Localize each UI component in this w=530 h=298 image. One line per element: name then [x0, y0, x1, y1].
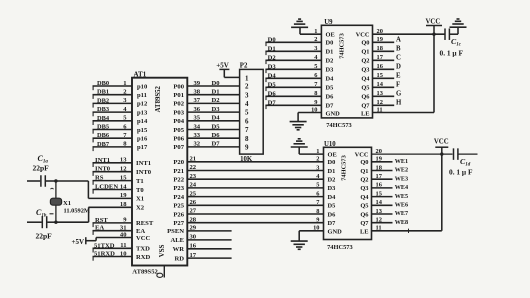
- svg-text:D5: D5: [268, 81, 277, 88]
- svg-text:H: H: [396, 100, 402, 107]
- wire U10 Q5 net WE6: [372, 202, 409, 209]
- wire DB6 to pin 7: [93, 132, 133, 142]
- svg-text:17: 17: [190, 252, 197, 259]
- svg-text:VCC: VCC: [434, 139, 449, 146]
- wire U10 Q0 net WE1: [372, 158, 409, 165]
- wire DB3 to pin 4: [93, 106, 133, 116]
- svg-text:4: 4: [245, 100, 249, 108]
- svg-text:D5: D5: [328, 203, 336, 210]
- svg-text:INT0: INT0: [95, 166, 111, 173]
- svg-text:Q2: Q2: [360, 177, 368, 184]
- svg-text:WE3: WE3: [395, 175, 408, 182]
- svg-text:REST: REST: [136, 220, 154, 227]
- wire crystal vertical: [55, 181, 57, 222]
- power +5V supply to VCC pin 40: [71, 237, 96, 246]
- label C1 value: [33, 154, 50, 173]
- svg-text:RST: RST: [95, 217, 108, 224]
- wire P04 net D4 pin 35: [187, 115, 239, 122]
- pin labels inside U9: [326, 32, 371, 118]
- svg-text:WE6: WE6: [395, 202, 408, 209]
- svg-text:9: 9: [316, 217, 319, 224]
- wire P01 net D1 pin 38: [187, 89, 239, 96]
- svg-text:21: 21: [190, 156, 197, 163]
- svg-text:D: D: [396, 64, 401, 71]
- svg-text:D2: D2: [268, 54, 277, 61]
- svg-text:P25: P25: [173, 203, 184, 210]
- power VCC above U10 rail: [435, 147, 448, 154]
- svg-text:D6: D6: [212, 132, 221, 139]
- svg-text:F: F: [396, 82, 400, 89]
- wire U10 Q2 net WE3: [372, 175, 409, 182]
- svg-text:19: 19: [120, 192, 127, 199]
- svg-text:D2: D2: [328, 177, 336, 184]
- svg-text:p17: p17: [137, 144, 148, 151]
- svg-text:P04: P04: [173, 118, 184, 125]
- svg-text:33: 33: [194, 132, 201, 139]
- svg-text:DB7: DB7: [97, 141, 110, 148]
- svg-text:VSS: VSS: [158, 244, 166, 257]
- wire U10 Q1 net WE2: [372, 167, 409, 174]
- svg-text:P01: P01: [173, 92, 184, 99]
- svg-text:D7: D7: [212, 141, 221, 148]
- svg-text:+5V: +5V: [216, 62, 229, 70]
- ground at U10 GND pin 10: [299, 231, 323, 241]
- svg-text:11: 11: [120, 242, 126, 249]
- svg-text:OE: OE: [326, 32, 335, 39]
- wire 51TXD: [93, 242, 133, 252]
- wire 51RXD: [93, 250, 133, 260]
- svg-text:VCC: VCC: [426, 19, 441, 26]
- node bottom stub of VSS pin: [163, 266, 165, 278]
- svg-text:WR: WR: [173, 246, 185, 253]
- svg-text:RS: RS: [95, 175, 104, 182]
- svg-text:AT89S52: AT89S52: [155, 85, 162, 112]
- svg-text:23: 23: [190, 173, 197, 180]
- wire U9 Q2 net C: [373, 55, 402, 62]
- label C3 value 0.1uF: [440, 37, 464, 57]
- wire D1 to U9 pin 3: [265, 45, 321, 55]
- svg-text:16: 16: [190, 243, 197, 250]
- svg-text:P03: P03: [173, 109, 184, 116]
- wire U9 Q5 net F: [373, 82, 401, 89]
- svg-text:Q1: Q1: [361, 49, 369, 56]
- svg-text:Q7: Q7: [360, 220, 369, 227]
- svg-text:74HC573: 74HC573: [339, 33, 346, 59]
- svg-text:DB0: DB0: [97, 80, 109, 87]
- svg-text:D5: D5: [326, 85, 334, 92]
- svg-text:D1: D1: [268, 45, 276, 52]
- svg-text:7: 7: [245, 126, 249, 134]
- svg-text:p10: p10: [137, 83, 148, 90]
- svg-text:INT0: INT0: [136, 169, 152, 176]
- svg-text:D1: D1: [212, 89, 220, 96]
- svg-text:P22: P22: [173, 177, 184, 184]
- svg-text:22: 22: [190, 164, 197, 171]
- wire U9 Q0 net A: [373, 37, 402, 44]
- svg-text:DB3: DB3: [97, 106, 109, 113]
- svg-text:C1c: C1c: [451, 37, 462, 48]
- svg-text:D7: D7: [328, 220, 337, 227]
- wire crystal bottom to X2 pin: [56, 207, 89, 222]
- svg-text:P26: P26: [173, 211, 184, 218]
- svg-text:29: 29: [190, 225, 197, 232]
- wire ALE pin 30: [187, 234, 231, 241]
- svg-text:INT1: INT1: [95, 157, 110, 164]
- capacitor C3 0.1uF at U9 VCC: [445, 28, 449, 40]
- svg-text:EA: EA: [95, 225, 104, 232]
- wire P05 net D5 pin 34: [187, 123, 239, 130]
- wire D2 to U9 pin 4: [265, 54, 321, 64]
- svg-text:A: A: [396, 37, 401, 44]
- svg-text:9: 9: [245, 144, 249, 152]
- svg-text:Q4: Q4: [360, 194, 369, 201]
- svg-text:36: 36: [194, 106, 201, 113]
- svg-text:D0: D0: [326, 40, 334, 47]
- svg-text:RD: RD: [174, 255, 184, 262]
- wire U10 VCC pin 20 rail: [372, 153, 453, 155]
- svg-text:14: 14: [120, 183, 127, 190]
- svg-text:DB5: DB5: [97, 124, 109, 131]
- svg-text:AT1: AT1: [134, 71, 147, 79]
- svg-text:8: 8: [245, 135, 249, 143]
- svg-text:0. 1 μ F: 0. 1 μ F: [440, 48, 464, 57]
- svg-text:11.0592M: 11.0592M: [64, 207, 90, 214]
- wire LCDEN pin 14: [93, 183, 133, 193]
- pin numbers U9 right: [377, 28, 384, 113]
- svg-text:LE: LE: [361, 110, 370, 117]
- svg-text:32: 32: [194, 141, 201, 148]
- svg-text:P06: P06: [173, 136, 184, 143]
- svg-text:DB2: DB2: [97, 97, 109, 104]
- wire DB1 to pin 2: [93, 89, 133, 99]
- svg-text:Q0: Q0: [361, 40, 369, 47]
- wire P27 pin 28 to U10 D7: [187, 216, 323, 223]
- wire U9 Q3 net D: [373, 64, 402, 71]
- wire P26 pin 27 to U10 D6: [187, 208, 323, 215]
- wire XTAL2 pin 18: [88, 201, 132, 208]
- svg-text:D6: D6: [326, 94, 335, 101]
- svg-text:1: 1: [245, 74, 249, 82]
- svg-text:Q1: Q1: [360, 168, 368, 175]
- svg-text:8: 8: [316, 208, 319, 215]
- wire D7 to U9 pin 9: [265, 99, 321, 109]
- svg-text:TXD: TXD: [136, 246, 150, 253]
- resistor network P2 10K: [240, 62, 264, 163]
- node junction crystal bottom: [54, 221, 57, 224]
- IC U10 74HC573 latch body: [324, 147, 372, 239]
- svg-text:D0: D0: [268, 36, 277, 43]
- svg-text:GND: GND: [326, 110, 341, 117]
- wire D4 to U9 pin 6: [265, 72, 321, 82]
- svg-text:5: 5: [316, 182, 319, 189]
- wire DB5 to pin 6: [93, 123, 133, 133]
- wire INT0 pin 12: [93, 166, 133, 176]
- svg-text:25: 25: [190, 190, 197, 197]
- ground at capacitor C3: [450, 19, 467, 27]
- svg-text:D1: D1: [326, 49, 334, 56]
- svg-text:WE8: WE8: [395, 219, 408, 226]
- pin numbers U10 left: [313, 148, 320, 232]
- svg-text:34: 34: [194, 123, 201, 130]
- svg-text:D7: D7: [326, 103, 335, 110]
- wire D5 to U9 pin 7: [265, 81, 321, 91]
- ground at U10 OE pin 1: [299, 147, 323, 154]
- svg-text:D0: D0: [212, 80, 221, 87]
- label U9 designator: [324, 19, 333, 26]
- wire U9 Q6 net G: [373, 91, 403, 98]
- wire P00 net D0 pin 39: [187, 80, 239, 87]
- svg-text:Q5: Q5: [361, 85, 369, 92]
- pin numbers U9 left: [311, 28, 318, 113]
- svg-text:Q0: Q0: [360, 159, 368, 166]
- ground at U9 GND pin 10: [298, 113, 321, 122]
- svg-text:6: 6: [245, 117, 249, 125]
- svg-text:26: 26: [190, 199, 197, 206]
- svg-text:51RXD: 51RXD: [94, 251, 115, 258]
- wire U10 Q4 net WE5: [372, 193, 409, 200]
- svg-text:D4: D4: [268, 72, 277, 79]
- svg-text:WE1: WE1: [395, 158, 408, 165]
- svg-text:p14: p14: [137, 118, 148, 125]
- svg-text:p15: p15: [137, 127, 148, 134]
- pin numbers U10 right: [376, 148, 383, 232]
- wire U9 Q4 net E: [373, 73, 402, 80]
- svg-text:28: 28: [190, 216, 197, 223]
- svg-text:P02: P02: [173, 101, 184, 108]
- svg-text:LCDEN: LCDEN: [95, 184, 118, 191]
- wire RD pin 17: [187, 252, 231, 259]
- wire P07 net D7 pin 32: [187, 141, 239, 148]
- svg-text:X1: X1: [63, 200, 71, 207]
- svg-text:OE: OE: [328, 151, 337, 158]
- svg-text:3: 3: [316, 164, 319, 171]
- crystal X1 11.0592M: [50, 198, 90, 214]
- svg-text:WE5: WE5: [395, 193, 408, 200]
- svg-text:0. 1 μ F: 0. 1 μ F: [449, 167, 473, 176]
- wire U9 Q1 net B: [373, 46, 402, 53]
- svg-text:DB4: DB4: [97, 115, 110, 122]
- svg-text:B: B: [396, 46, 401, 53]
- wire P06 net D6 pin 33: [187, 132, 239, 139]
- wire P22 pin 23 to U10 D2: [187, 173, 323, 180]
- svg-text:22pF: 22pF: [33, 164, 50, 173]
- svg-text:51TXD: 51TXD: [94, 242, 115, 249]
- svg-text:D3: D3: [326, 67, 334, 74]
- svg-text:39: 39: [194, 80, 201, 87]
- pin labels inside U10: [328, 151, 370, 235]
- wire PSEN pin 29: [187, 225, 231, 232]
- svg-text:P07: P07: [173, 144, 184, 151]
- power VCC above U9 rail: [426, 26, 442, 35]
- svg-text:p11: p11: [137, 92, 147, 99]
- svg-text:LE: LE: [360, 229, 369, 236]
- capacitor C1 22pF upper: [27, 180, 56, 182]
- svg-text:40: 40: [120, 231, 127, 238]
- wire crystal top to X1 pin: [56, 181, 89, 198]
- svg-text:3: 3: [245, 91, 249, 99]
- wire EA: [93, 225, 133, 235]
- svg-text:Q5: Q5: [360, 203, 368, 210]
- pin labels inside AT89S52 left column: [136, 83, 154, 260]
- svg-text:30: 30: [190, 234, 197, 241]
- wire XTAL1 pin 19: [88, 192, 132, 199]
- svg-text:U10: U10: [324, 141, 336, 148]
- svg-text:27: 27: [190, 208, 197, 215]
- wire RS pin 15: [93, 174, 133, 184]
- wire P03 net D3 pin 36: [187, 106, 239, 113]
- wire DB2 to pin 3: [93, 97, 133, 107]
- wire D3 to U9 pin 5: [265, 63, 321, 73]
- IC U9 74HC573 latch body: [321, 25, 372, 118]
- ground at U9 OE pin 1: [300, 27, 321, 34]
- svg-text:13: 13: [120, 157, 127, 164]
- svg-text:T0: T0: [136, 187, 144, 194]
- svg-text:G: G: [396, 91, 402, 98]
- svg-text:WE2: WE2: [395, 167, 408, 174]
- svg-text:2: 2: [245, 83, 249, 91]
- wire P23 pin 24 to U10 D3: [187, 182, 323, 189]
- svg-text:VCC: VCC: [356, 32, 370, 39]
- svg-text:E: E: [396, 73, 401, 80]
- svg-text:D1: D1: [328, 168, 336, 175]
- svg-text:Q3: Q3: [361, 67, 369, 74]
- wire DB0 to pin 1: [93, 80, 133, 90]
- svg-text:WE4: WE4: [395, 184, 408, 191]
- svg-text:X1: X1: [136, 196, 144, 203]
- wire D6 to U9 pin 8: [265, 90, 321, 100]
- pin labels inside AT89S52 right column: [167, 83, 185, 262]
- svg-text:74HC573: 74HC573: [327, 244, 353, 251]
- svg-text:37: 37: [194, 97, 201, 104]
- svg-text:P23: P23: [173, 185, 184, 192]
- svg-text:p16: p16: [137, 136, 148, 143]
- svg-text:WE7: WE7: [395, 210, 408, 217]
- svg-text:GND: GND: [328, 229, 343, 236]
- wire U10 LE pin 11 to VCC rail: [372, 154, 442, 233]
- wire P24 pin 25 to U10 D4: [187, 190, 323, 197]
- svg-text:Q4: Q4: [361, 76, 370, 83]
- svg-text:2: 2: [316, 156, 319, 163]
- svg-text:Q3: Q3: [360, 185, 368, 192]
- svg-text:T1: T1: [136, 178, 144, 185]
- svg-text:Q2: Q2: [361, 58, 369, 65]
- svg-text:P27: P27: [173, 220, 184, 227]
- svg-text:INT1: INT1: [136, 160, 151, 167]
- node junction crystal top: [54, 179, 57, 182]
- wire U9 LE pin 11 to VCC rail: [373, 34, 435, 112]
- svg-text:U9: U9: [324, 19, 333, 26]
- svg-text:10: 10: [120, 250, 127, 257]
- svg-text:DB6: DB6: [97, 132, 110, 139]
- svg-text:D7: D7: [268, 99, 277, 106]
- capacitor C4 0.1uF at U10 VCC: [454, 148, 458, 160]
- wire P25 pin 26 to U10 D5: [187, 199, 323, 206]
- svg-text:P24: P24: [173, 194, 184, 201]
- svg-text:D5: D5: [212, 123, 221, 130]
- svg-text:VCC: VCC: [355, 151, 369, 158]
- wire INT1 pin 13: [93, 157, 133, 167]
- wire DB4 to pin 5: [93, 115, 133, 125]
- svg-text:1: 1: [123, 80, 126, 87]
- svg-text:C1b: C1b: [36, 208, 47, 219]
- svg-text:15: 15: [120, 174, 127, 181]
- label C4 value 0.1uF: [449, 157, 473, 176]
- svg-text:D0: D0: [328, 159, 336, 166]
- svg-text:24: 24: [190, 182, 197, 189]
- power +5V supply to resistor pack pin 1: [216, 62, 239, 78]
- svg-text:X2: X2: [136, 205, 145, 212]
- label C2 value: [36, 208, 54, 241]
- node squiggle mark: [51, 187, 54, 190]
- svg-text:D3: D3: [268, 63, 277, 70]
- svg-text:18: 18: [120, 201, 127, 208]
- svg-text:22pF: 22pF: [36, 232, 53, 241]
- IC AT1 AT89S52 microcontroller body: [132, 78, 187, 266]
- svg-text:Q6: Q6: [361, 94, 370, 101]
- svg-text:D2: D2: [212, 97, 221, 104]
- svg-text:D4: D4: [328, 194, 337, 201]
- capacitor C2 22pF lower: [27, 221, 56, 223]
- label U10 designator: [324, 141, 336, 148]
- svg-text:35: 35: [194, 115, 201, 122]
- wire P20 pin 21 to U10 D0: [187, 156, 323, 163]
- wire DB7 to pin 8: [93, 141, 133, 151]
- svg-text:P05: P05: [173, 127, 184, 134]
- svg-text:p12: p12: [137, 101, 148, 108]
- svg-text:74HC573: 74HC573: [326, 122, 352, 129]
- svg-text:D4: D4: [212, 115, 221, 122]
- wire U10 Q6 net WE7: [372, 210, 409, 217]
- svg-text:D4: D4: [326, 76, 335, 83]
- wire U10 Q7 net WE8: [372, 219, 409, 226]
- svg-text:P00: P00: [173, 83, 184, 90]
- svg-text:C: C: [396, 55, 401, 62]
- svg-text:+5V: +5V: [71, 238, 84, 246]
- svg-text:12: 12: [120, 166, 127, 173]
- wire D0 to U9 pin 2: [265, 36, 321, 46]
- svg-text:D6: D6: [328, 211, 337, 218]
- svg-text:38: 38: [194, 89, 201, 96]
- svg-text:P20: P20: [173, 159, 184, 166]
- wire U9 Q7 net H: [373, 100, 403, 107]
- wire P02 net D2 pin 37: [187, 97, 239, 104]
- svg-text:RXD: RXD: [136, 254, 151, 261]
- svg-text:P2: P2: [240, 62, 248, 69]
- svg-text:74HC573: 74HC573: [341, 155, 348, 181]
- svg-text:Q6: Q6: [360, 211, 369, 218]
- svg-text:AT89S52: AT89S52: [132, 268, 158, 275]
- svg-text:P21: P21: [173, 168, 184, 175]
- wire RST: [93, 217, 133, 227]
- svg-text:C1d: C1d: [460, 157, 471, 168]
- wire VCC pin 40: [96, 231, 132, 238]
- svg-text:VCC: VCC: [136, 235, 151, 242]
- wire WR pin 16: [187, 243, 231, 250]
- svg-text:PSEN: PSEN: [167, 228, 184, 235]
- node junction U10 VCC LE: [440, 152, 443, 155]
- svg-text:D3: D3: [328, 185, 336, 192]
- svg-text:D2: D2: [326, 58, 334, 65]
- svg-text:p13: p13: [137, 109, 148, 116]
- node junction U9 VCC LE: [432, 33, 435, 36]
- wire U10 Q3 net WE4: [372, 184, 409, 191]
- svg-text:Q7: Q7: [361, 103, 370, 110]
- svg-text:D3: D3: [212, 106, 221, 113]
- svg-text:D6: D6: [268, 90, 277, 97]
- svg-text:5: 5: [245, 109, 249, 117]
- svg-text:DB1: DB1: [97, 89, 109, 96]
- wire U9 VCC pin 20 rail: [373, 33, 446, 35]
